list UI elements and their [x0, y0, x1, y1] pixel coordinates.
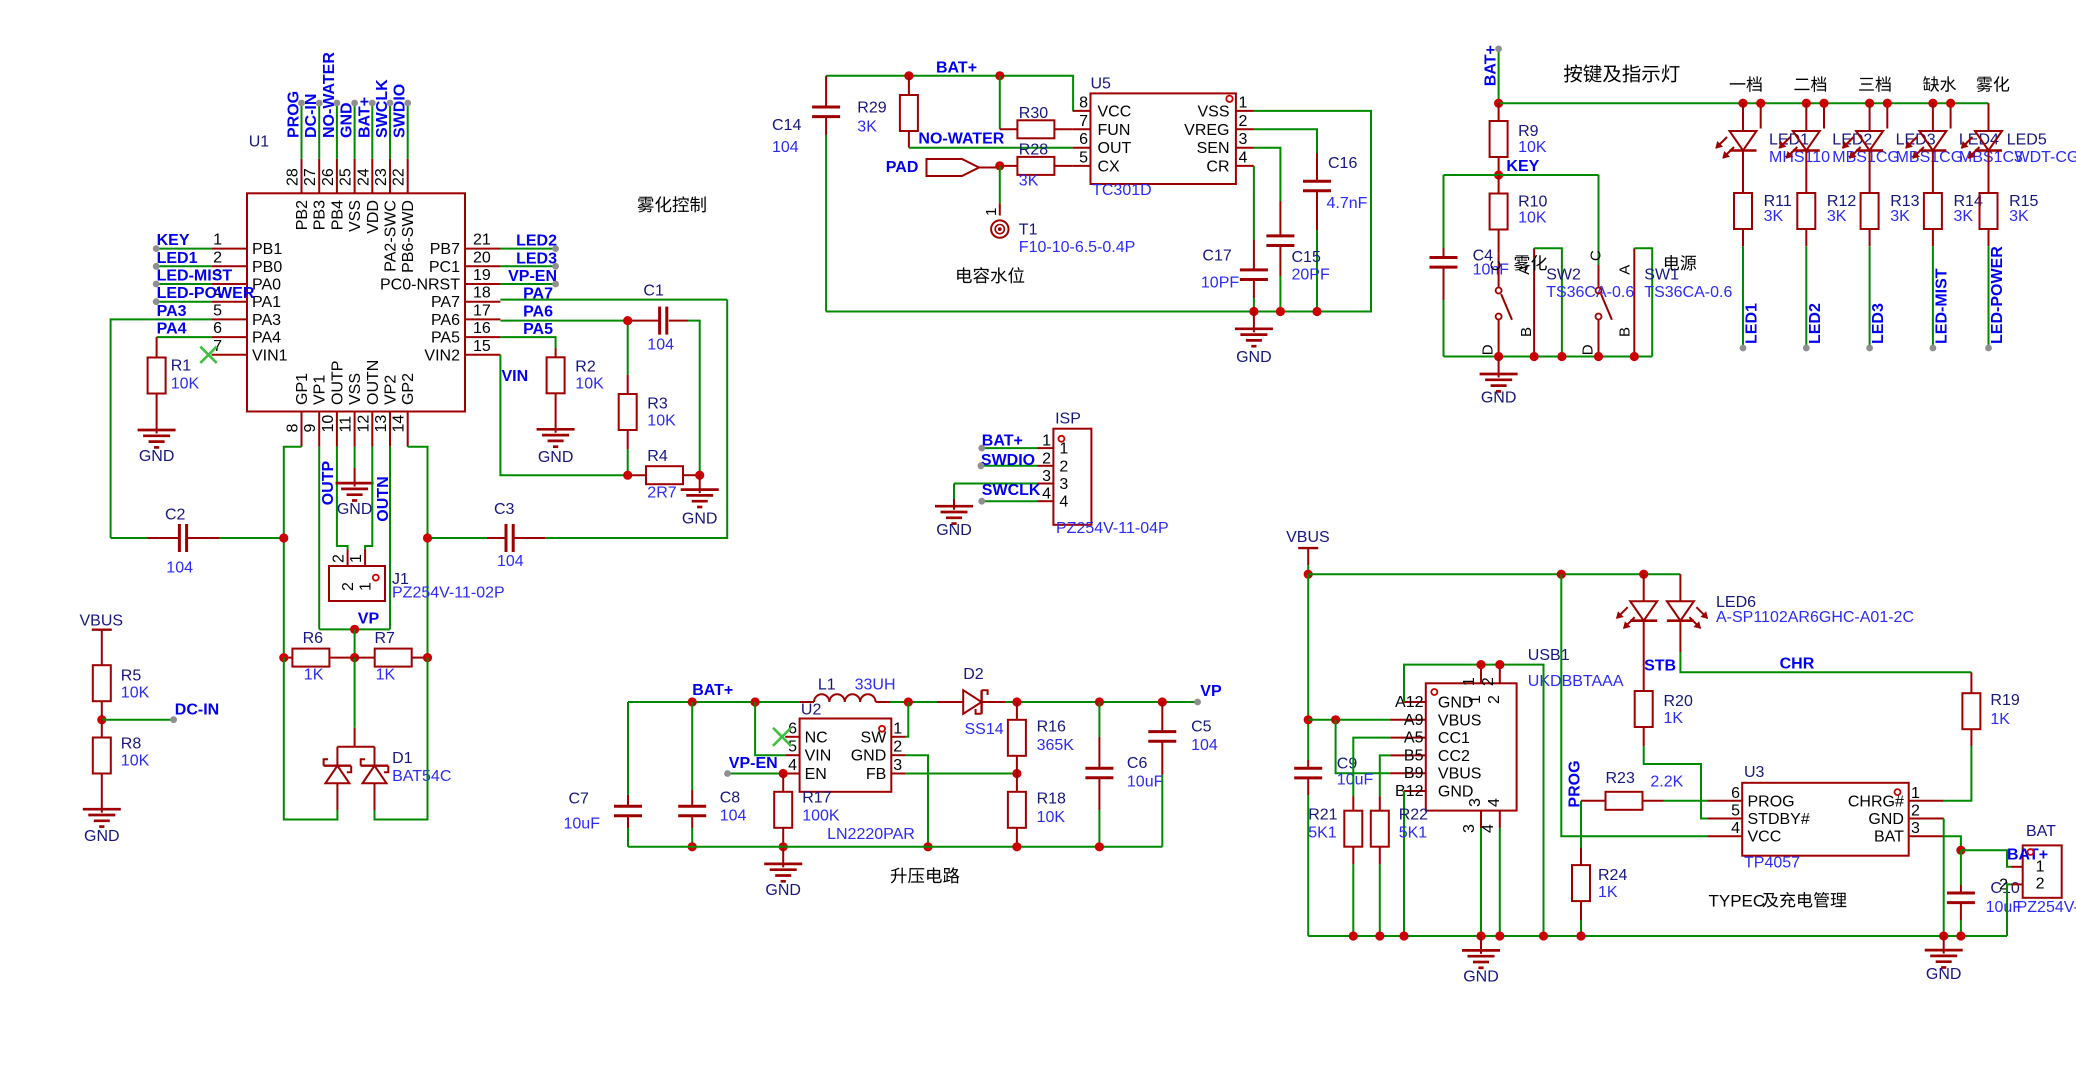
- svg-text:17: 17: [473, 302, 491, 319]
- svg-text:LED-MIST: LED-MIST: [1934, 268, 1951, 344]
- wire end dot LED-MIST: [153, 281, 160, 288]
- wire CC2 to R22: [1380, 755, 1391, 796]
- U2 pin1 marker: [879, 726, 885, 732]
- svg-text:3K: 3K: [1890, 208, 1910, 225]
- svg-text:R18: R18: [1037, 791, 1066, 808]
- wire B9 VBUS path: [1336, 720, 1391, 773]
- U3 pin 6 PROG stub: [1707, 800, 1742, 802]
- resistor R20: [1635, 691, 1653, 727]
- junction C5 top: [1158, 697, 1167, 706]
- wire C3 right to PA7 loop: [545, 300, 727, 538]
- ground usb section: [1480, 936, 1482, 950]
- resistor R9: [1498, 103, 1500, 121]
- junction USB pin4 bottom: [1495, 931, 1504, 940]
- ISP pin 4 stub: [1038, 500, 1054, 502]
- svg-text:U5: U5: [1091, 76, 1112, 93]
- svg-text:GND: GND: [84, 828, 120, 845]
- svg-text:5K1: 5K1: [1308, 825, 1337, 842]
- resistor R12: [1797, 193, 1815, 229]
- wire boost bottom rail: [628, 846, 1162, 848]
- USB1 pin 3 stub bottom: [1480, 811, 1482, 828]
- junction C6 bottom: [1095, 842, 1104, 851]
- svg-text:365K: 365K: [1037, 737, 1075, 754]
- svg-text:VCC: VCC: [1098, 103, 1132, 120]
- switch SW1 AB stub: [1633, 248, 1635, 356]
- BAT pin1 marker: [2028, 849, 2034, 855]
- svg-text:1: 1: [893, 720, 902, 737]
- wire SW1 bracket: [1634, 248, 1652, 356]
- U5 pin1 marker: [1226, 96, 1232, 102]
- svg-text:GND: GND: [139, 448, 175, 465]
- wire net LED3: [500, 265, 555, 267]
- svg-text:3K: 3K: [857, 118, 877, 135]
- wire B12 to ground rail: [1403, 791, 1405, 936]
- wire L1 to D2: [890, 701, 937, 703]
- svg-text:TP4057: TP4057: [1744, 855, 1800, 872]
- column header 二档: [1794, 76, 1826, 92]
- column header 雾化: [1977, 76, 2010, 92]
- svg-text:R1: R1: [171, 357, 192, 374]
- svg-text:5: 5: [213, 302, 222, 319]
- wire ISP pin3 to ground: [954, 483, 1038, 485]
- svg-text:R9: R9: [1518, 123, 1539, 140]
- LED LED3: [1869, 103, 1871, 131]
- wire PA5 to R2: [500, 337, 555, 348]
- svg-text:1K: 1K: [1598, 884, 1618, 901]
- svg-text:1: 1: [1911, 785, 1920, 802]
- junction R6 left: [279, 653, 288, 662]
- U5 pin 5 CX stub: [1073, 165, 1091, 167]
- svg-text:C16: C16: [1328, 155, 1357, 172]
- wire U1 pin11 VSS to ground: [354, 447, 356, 468]
- svg-text:1: 1: [348, 554, 365, 563]
- wire R22 to ground rail: [1379, 864, 1381, 936]
- svg-text:20: 20: [473, 249, 491, 266]
- svg-text:OUTP: OUTP: [329, 361, 346, 405]
- connector USB1 body: [1426, 683, 1517, 810]
- svg-text:PB2: PB2: [294, 200, 311, 230]
- wire VP-EN: [728, 773, 786, 775]
- wire end dot SWCLK: [978, 498, 985, 505]
- junction VP: [350, 625, 359, 634]
- svg-text:SWCLK: SWCLK: [982, 482, 1041, 499]
- wire net LED2: [1805, 246, 1807, 348]
- svg-text:9: 9: [302, 424, 319, 433]
- junction BAT+/R30 riser: [995, 71, 1004, 80]
- svg-text:R2: R2: [575, 359, 596, 376]
- svg-text:PAD: PAD: [886, 159, 919, 176]
- svg-text:F10-10-6.5-0.4P: F10-10-6.5-0.4P: [1019, 239, 1136, 256]
- USB1 pin A9 VBUS stub: [1390, 719, 1425, 721]
- U1 pin 10 OUTP stub: [336, 412, 338, 447]
- wire D1 left anode loop: [336, 783, 338, 810]
- svg-text:C6: C6: [1127, 755, 1148, 772]
- resistor R29: [908, 76, 910, 95]
- svg-text:R17: R17: [802, 789, 831, 806]
- svg-text:EN: EN: [805, 766, 827, 783]
- U1 pin 25 VSS stub: [354, 159, 356, 194]
- svg-text:2: 2: [1239, 113, 1248, 130]
- resistor R4: [628, 474, 646, 476]
- wire net VP-EN: [500, 283, 555, 285]
- svg-text:2.2K: 2.2K: [1650, 774, 1683, 791]
- wire end dot DC-IN: [170, 716, 177, 723]
- svg-text:L1: L1: [818, 677, 836, 694]
- junction R24 bottom: [1576, 931, 1585, 940]
- junction DC-IN: [97, 715, 106, 724]
- wire net LED-MIST: [1932, 246, 1934, 348]
- wire end dot VP-EN: [552, 281, 559, 288]
- svg-text:C3: C3: [494, 501, 515, 518]
- svg-text:PA3: PA3: [157, 303, 187, 320]
- svg-text:C: C: [1488, 260, 1505, 271]
- junction KEY: [1494, 170, 1503, 179]
- wire U5 VREG to C16: [1254, 129, 1317, 153]
- wire C1 right to R4 right: [688, 321, 700, 476]
- wire NO-WATER R29 to U5 pin6: [909, 147, 1073, 149]
- wire BAT+ top water: [826, 76, 1073, 111]
- wire top rail LEDs: [1499, 102, 1989, 104]
- ISP pin1 marker: [1058, 436, 1064, 442]
- wire U2 FB row: [906, 773, 1017, 775]
- capacitor C16: [1316, 153, 1318, 181]
- svg-text:D: D: [1480, 344, 1497, 355]
- svg-text:PZ254V-11-04P: PZ254V-11-04P: [1056, 520, 1169, 537]
- svg-text:VP: VP: [1200, 683, 1222, 700]
- USB1 pin B12 GND stub: [1404, 790, 1426, 792]
- U1 pin 20 PC1 stub: [465, 265, 500, 267]
- wire BAT+ riser to R30: [999, 76, 1001, 130]
- wire end dot LED2: [1803, 345, 1810, 352]
- svg-text:LED2: LED2: [516, 233, 557, 250]
- svg-text:PA4: PA4: [252, 330, 281, 347]
- USB1 pin 1 stub top: [1480, 665, 1482, 684]
- U1 pin 13 VP2 stub: [389, 412, 391, 447]
- wire LED3 cathode to R13: [1869, 151, 1871, 194]
- svg-text:2: 2: [213, 249, 222, 266]
- resistor R19: [1970, 672, 1972, 693]
- section title 升压电路: [891, 867, 960, 883]
- svg-text:R20: R20: [1664, 693, 1693, 710]
- U1 pin 28 PB2 stub: [301, 159, 303, 194]
- svg-text:1: 1: [2036, 859, 2045, 876]
- wire end dot BAT+: [1495, 46, 1502, 53]
- wire end dot LED-POWER: [1985, 345, 1992, 352]
- junction C6 top: [1095, 697, 1104, 706]
- svg-text:PB3: PB3: [312, 200, 329, 230]
- wire end dot VP: [1194, 699, 1201, 706]
- U1 pin 7 VIN1 stub: [212, 354, 247, 356]
- wire end dot LED2: [552, 245, 559, 252]
- wire net DC-IN to U1 pin 27: [318, 103, 320, 159]
- U1 pin 15 VIN2 stub: [465, 354, 500, 356]
- U5 pin 6 OUT stub: [1073, 147, 1091, 149]
- svg-text:CC2: CC2: [1438, 748, 1470, 765]
- svg-text:LED3: LED3: [1870, 303, 1887, 344]
- svg-text:25: 25: [338, 168, 355, 186]
- U5 pin 1 VSS stub: [1236, 110, 1254, 112]
- resistor R13: [1861, 193, 1879, 229]
- wire VP row: [319, 628, 390, 630]
- svg-text:C1: C1: [643, 283, 664, 300]
- U1 pin 12 OUTN stub: [371, 412, 373, 447]
- svg-text:15: 15: [473, 338, 491, 355]
- junction LED3 second pin: [1883, 99, 1892, 108]
- svg-text:R16: R16: [1037, 719, 1066, 736]
- svg-text:TS36CA-0.6: TS36CA-0.6: [1546, 284, 1634, 301]
- svg-text:10uF: 10uF: [1127, 774, 1164, 791]
- wire R19 to U3 CHRG: [1944, 746, 1972, 801]
- wire BAT+ boost top rail: [628, 701, 800, 703]
- junction PAD/R28/T1: [995, 161, 1004, 170]
- svg-text:3K: 3K: [1827, 208, 1847, 225]
- svg-text:1: 1: [983, 208, 1000, 216]
- svg-text:R5: R5: [121, 667, 142, 684]
- wire STB LED6 to R20: [1643, 621, 1645, 691]
- junction R6/R7 middle: [350, 653, 359, 662]
- U5 pin 2 VREG stub: [1236, 128, 1254, 130]
- wire PA4 to R1: [157, 336, 212, 338]
- ISP pin 1 stub: [1038, 447, 1054, 449]
- U3 pin 5 STDBY# stub: [1707, 818, 1742, 820]
- wire C5 down to bottom rail: [1161, 775, 1163, 847]
- resistor R23: [1581, 800, 1606, 802]
- svg-text:BAT+: BAT+: [936, 59, 977, 76]
- wire R6/R7 junction down to D1 cathode: [354, 658, 356, 728]
- svg-text:VBUS: VBUS: [1438, 712, 1482, 729]
- svg-text:B: B: [1616, 327, 1633, 337]
- no-connect X on U2 pin6 NC: [773, 728, 791, 746]
- svg-text:2: 2: [2036, 875, 2045, 892]
- wire LED1 cathode to R11: [1742, 151, 1744, 194]
- svg-text:2: 2: [1059, 458, 1068, 475]
- U3 pin1 marker: [1895, 789, 1901, 795]
- junction SW2 stub bottom: [1530, 352, 1539, 361]
- junction C8 bottom: [688, 842, 697, 851]
- svg-text:R29: R29: [857, 99, 886, 116]
- svg-text:VP-EN: VP-EN: [729, 755, 778, 772]
- U3 pin 1 CHRG# stub: [1909, 800, 1944, 802]
- wire BAT+ to ISP pin1: [982, 447, 1038, 449]
- wire LED2 cathode to R12: [1805, 151, 1807, 194]
- BAT pin 2 stub: [2011, 883, 2023, 885]
- svg-text:VP-EN: VP-EN: [508, 268, 557, 285]
- junction SW1 lever bottom: [1594, 352, 1603, 361]
- svg-text:100K: 100K: [802, 808, 840, 825]
- svg-text:4: 4: [1480, 824, 1497, 833]
- svg-text:12: 12: [355, 415, 372, 433]
- svg-text:GND: GND: [538, 449, 574, 466]
- resistor R7: [355, 657, 375, 659]
- wire end dot GND: [351, 100, 358, 107]
- svg-text:USB1: USB1: [1528, 647, 1570, 664]
- svg-text:19: 19: [473, 267, 491, 284]
- U1 pin 14 GP2 stub: [407, 412, 409, 447]
- capacitor C3: [487, 537, 506, 539]
- svg-text:1: 1: [358, 582, 375, 591]
- wire U1 pin9 VP1 down: [318, 447, 320, 630]
- svg-text:PA5: PA5: [523, 321, 553, 338]
- svg-text:UKDBBTAAA: UKDBBTAAA: [1528, 673, 1624, 690]
- svg-text:FUN: FUN: [1098, 122, 1131, 139]
- section title 雾化控制: [638, 196, 706, 212]
- resistor R24: [1580, 848, 1582, 865]
- svg-text:4: 4: [1239, 149, 1248, 166]
- svg-text:A9: A9: [1404, 712, 1424, 729]
- wire end dot LED-POWER: [153, 298, 160, 305]
- svg-text:PB0: PB0: [252, 259, 282, 276]
- svg-text:104: 104: [497, 553, 524, 570]
- U2 pin 3 FB stub: [891, 773, 906, 775]
- svg-text:R3: R3: [647, 395, 668, 412]
- svg-text:C7: C7: [569, 790, 590, 807]
- capacitor C15: [1279, 201, 1281, 236]
- junction U2 GND bottom: [923, 842, 932, 851]
- svg-text:R19: R19: [1990, 692, 2019, 709]
- label 雾化 SW2: [1514, 255, 1547, 271]
- wire U3 BAT to C10 and BAT connector: [1944, 836, 1961, 850]
- svg-text:D: D: [1580, 344, 1597, 355]
- svg-text:3: 3: [1911, 820, 1920, 837]
- svg-text:WDT-CG: WDT-CG: [2015, 149, 2076, 166]
- U1 pin 8 GP1 stub: [301, 412, 303, 447]
- svg-text:104: 104: [1191, 737, 1218, 754]
- ground at ISP: [953, 484, 955, 500]
- svg-text:R7: R7: [375, 630, 396, 647]
- svg-text:PZ254V-11-02P: PZ254V-11-02P: [392, 585, 505, 602]
- U1 pin 3 PA0 stub: [212, 283, 247, 285]
- svg-text:10K: 10K: [171, 375, 200, 392]
- svg-text:4: 4: [788, 757, 797, 774]
- wire end dot LED3: [552, 263, 559, 270]
- svg-text:2R7: 2R7: [647, 484, 676, 501]
- svg-text:GND: GND: [337, 501, 373, 518]
- svg-text:PZ254V-11-02P: PZ254V-11-02P: [2017, 899, 2076, 916]
- svg-text:3: 3: [1059, 476, 1068, 493]
- wire LED4 cathode to R14: [1932, 151, 1934, 194]
- wire net PROG to U1 pin 28: [301, 103, 303, 159]
- svg-text:VIN: VIN: [502, 368, 529, 385]
- svg-text:U1: U1: [249, 134, 270, 151]
- svg-text:1: 1: [1461, 677, 1478, 686]
- svg-text:KEY: KEY: [1506, 158, 1539, 175]
- svg-text:T1: T1: [1019, 222, 1038, 239]
- svg-text:PA3: PA3: [252, 312, 281, 329]
- capacitor C9: [1307, 760, 1309, 768]
- junction BAT+ top rail: [1494, 99, 1503, 108]
- svg-text:R28: R28: [1019, 142, 1048, 159]
- svg-text:10: 10: [320, 415, 337, 433]
- svg-text:BAT: BAT: [2026, 823, 2056, 840]
- wire BAT pin2 to ground rail: [2007, 884, 2011, 936]
- wire net LED1: [156, 265, 211, 267]
- U1 pin 4 PA1 stub: [212, 301, 247, 303]
- resistor R6: [284, 657, 293, 659]
- capacitor C8: [691, 702, 693, 790]
- U1 pin 16 PA5 stub: [465, 336, 500, 338]
- wire KEY row: [1444, 174, 1599, 176]
- svg-text:6: 6: [1079, 131, 1088, 148]
- wire USB pin4 to ground rail: [1499, 828, 1501, 936]
- svg-text:PC0-NRST: PC0-NRST: [380, 277, 460, 294]
- resistor R2: [555, 348, 557, 357]
- wire U1 pin13 VP2 down: [389, 447, 391, 630]
- wire CC1 to R21: [1353, 738, 1390, 797]
- svg-text:SWDIO: SWDIO: [392, 84, 409, 138]
- capacitor C6: [1098, 702, 1100, 737]
- U1 pin 19 PC0-NRST stub: [465, 283, 500, 285]
- svg-text:28: 28: [285, 168, 302, 186]
- BAT pin 1 stub: [2011, 866, 2023, 868]
- wire net BAT+ to U1 pin 24: [371, 103, 373, 159]
- wire U3 GND down: [1909, 818, 1944, 820]
- junction USB shell bottom: [1539, 931, 1548, 940]
- wire BAT+ to U2 VIN: [755, 702, 785, 755]
- svg-text:10K: 10K: [121, 752, 150, 769]
- svg-text:C: C: [1588, 250, 1605, 261]
- svg-text:LED-POWER: LED-POWER: [1989, 246, 2006, 344]
- junction R21 bottom: [1349, 931, 1358, 940]
- svg-text:VBUS: VBUS: [80, 613, 124, 630]
- wire typec bottom rail: [1308, 935, 2007, 937]
- svg-text:22: 22: [391, 168, 408, 186]
- wire U2 GND to bottom rail: [906, 755, 928, 847]
- U1 pin 6 PA4 stub: [212, 336, 247, 338]
- capacitor C1: [628, 320, 660, 322]
- stub pin LED1 second: [1760, 103, 1762, 128]
- svg-text:R30: R30: [1019, 105, 1048, 122]
- junction LED1 second pin: [1756, 99, 1765, 108]
- junction LED3 anode: [1865, 99, 1874, 108]
- svg-text:3: 3: [1042, 468, 1051, 485]
- U5 pin 7 FUN stub: [1073, 128, 1091, 130]
- wire U5 VSS to right rail: [826, 111, 1371, 312]
- svg-text:10PF: 10PF: [1201, 274, 1239, 291]
- connector ISP body: [1053, 429, 1091, 525]
- junction C3/pin14/R7: [423, 533, 432, 542]
- column header 一档: [1730, 76, 1762, 92]
- USB1 pin 4 stub bottom: [1499, 811, 1501, 828]
- svg-text:10K: 10K: [647, 412, 676, 429]
- svg-text:4: 4: [1486, 798, 1503, 807]
- junction U3 GND bottom: [1939, 931, 1948, 940]
- wire end dot KEY: [153, 245, 160, 252]
- svg-text:C17: C17: [1202, 247, 1231, 264]
- J1 pin1 marker: [373, 575, 379, 581]
- svg-text:PA2-SWC: PA2-SWC: [383, 200, 400, 272]
- svg-text:CX: CX: [1098, 158, 1121, 175]
- wire end dot NO-WATER: [334, 100, 341, 107]
- svg-text:VBUS: VBUS: [1286, 529, 1330, 546]
- wire net NO-WATER to U1 pin 26: [336, 103, 338, 159]
- wire BAT junction to connector: [1961, 850, 2011, 867]
- svg-text:PROG: PROG: [286, 91, 303, 138]
- junction C17/bottom rail ground: [1249, 307, 1258, 316]
- U5 pin 4 CR stub: [1236, 165, 1254, 167]
- U1 pin 21 PB7 stub: [465, 248, 500, 250]
- junction R7 right: [423, 653, 432, 662]
- wire U1 pin12 OUTN to J1 pin1: [365, 447, 372, 550]
- junction FB/R16/R18: [1012, 769, 1021, 778]
- svg-text:B: B: [1518, 327, 1535, 337]
- svg-text:104: 104: [166, 560, 193, 577]
- svg-text:PB4: PB4: [329, 200, 346, 230]
- U1 pin 17 PA6 stub: [465, 318, 500, 320]
- resistor R11: [1734, 193, 1752, 229]
- svg-text:NO-WATER: NO-WATER: [918, 131, 1004, 148]
- U3 pin 4 VCC stub: [1707, 835, 1742, 837]
- svg-text:SWDIO: SWDIO: [981, 452, 1035, 469]
